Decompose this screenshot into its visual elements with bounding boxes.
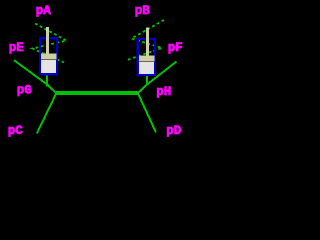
svg-text:pF: pF	[168, 41, 183, 55]
piston cylinder left: lower chamber (white)	[41, 60, 56, 73]
dashed flow arrow zigzag, left component	[33, 24, 67, 63]
svg-text:pB: pB	[135, 4, 151, 18]
wire stub from right cylinder bottom	[146, 76, 148, 85]
wire pD from right junction	[138, 94, 156, 133]
wire right cylinder port to junction pH	[138, 85, 147, 94]
piston cylinder left: rod	[46, 27, 49, 54]
piston cylinder left: piston plate	[41, 54, 57, 60]
wire pE to left cylinder port	[14, 60, 47, 84]
svg-text:pD: pD	[166, 124, 182, 138]
piston cylinder right: lower chamber (white)	[139, 62, 154, 74]
svg-text:pA: pA	[36, 4, 52, 18]
wire stub from left cylinder bottom	[46, 75, 48, 86]
wire pC from left junction	[37, 93, 57, 133]
piston cylinder right: piston plate	[139, 56, 155, 62]
wire pF to right cylinder port	[147, 62, 177, 85]
svg-text:pG: pG	[17, 84, 32, 98]
dashed flow arrow zigzag, right component	[126, 20, 165, 61]
wire left cylinder port to junction pG	[47, 84, 56, 93]
piston cylinder right: housing box	[138, 39, 155, 75]
horizontal bus wire pG to pH	[56, 91, 139, 95]
svg-text:pH: pH	[156, 85, 171, 99]
svg-text:pC: pC	[8, 124, 24, 138]
svg-text:pE: pE	[9, 41, 24, 55]
piston cylinder right: rod	[146, 28, 149, 56]
piston cylinder left: housing box	[40, 38, 57, 74]
